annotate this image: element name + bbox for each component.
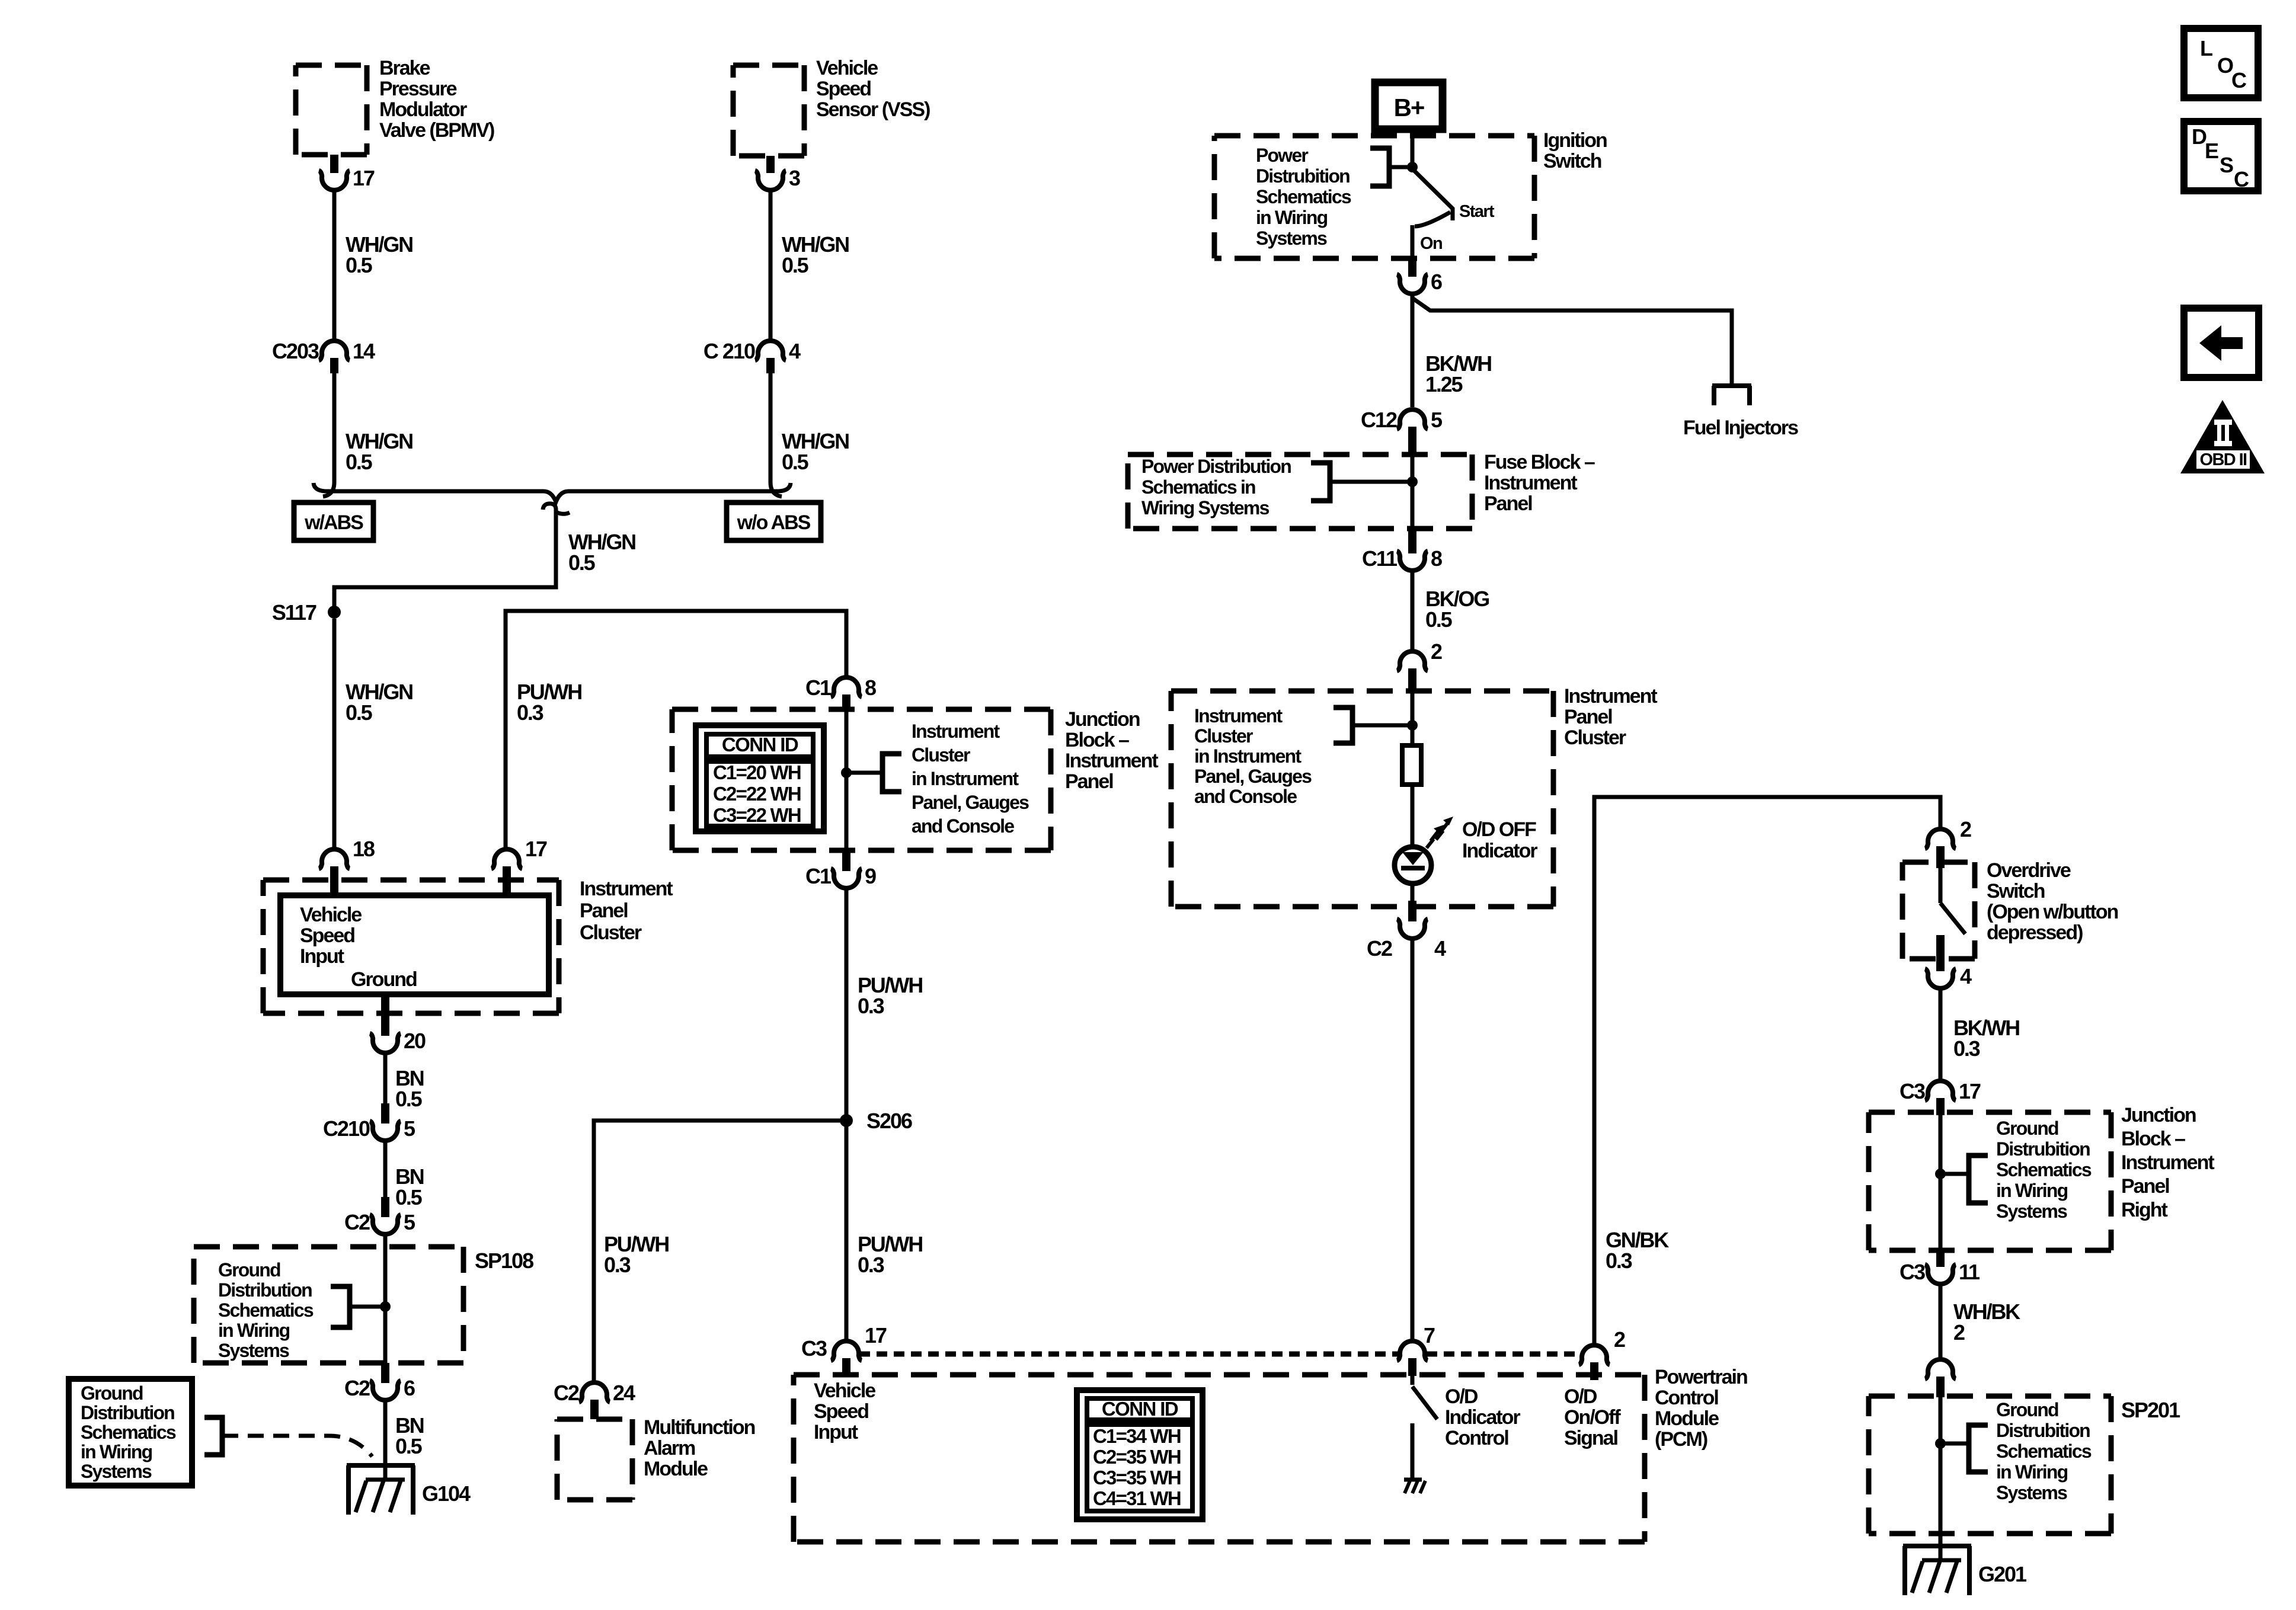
svg-text:Start: Start [1459,202,1495,221]
svg-text:BN0.5: BN0.5 [395,1066,424,1111]
svg-text:17: 17 [525,837,547,861]
svg-text:5: 5 [1431,408,1443,432]
svg-text:w/ABS: w/ABS [304,511,363,534]
wire WH/GN from C203 to ABS brace [323,373,334,497]
reference box: Ground Distribution Schematics in Wiring Systems [69,1379,192,1486]
reference bracket in SP201 [1969,1425,1988,1472]
connector C210 pin 5 [381,1103,389,1124]
component box: Powertrain Control Module (PCM) [794,1375,1645,1542]
svg-text:C1: C1 [805,864,832,888]
svg-text:C2: C2 [344,1376,370,1400]
ignition switch blade to Start [1412,169,1453,220]
svg-text:8: 8 [1431,546,1442,571]
svg-text:18: 18 [353,837,375,861]
splice pack box SP108 [194,1247,463,1363]
svg-text:OBD II: OBD II [2199,450,2247,469]
svg-text:C2: C2 [554,1381,579,1405]
CONN ID table (PCM) [1077,1390,1203,1519]
svg-text:w/o ABS: w/o ABS [737,511,811,534]
wire BN from C2 6 to ground G104 [383,1401,388,1480]
wire resistor to LED [1411,785,1415,848]
component box: Junction Block - Instrument Panel [672,709,1051,850]
connector C3 pin 17 at PCM [842,1358,850,1376]
junction node to bracket [841,767,852,778]
splice node S206 [840,1114,853,1127]
connector at SP201 [1936,1377,1945,1397]
legend box DESC [2184,121,2258,191]
wire BK/WH from pin 4 to C3 17 [1939,990,1943,1080]
wire through junction block [845,711,849,852]
reference bracket in ignition switch box [1370,148,1389,186]
connector C1 pin 8 at junction block [842,694,850,711]
svg-text:BN0.5: BN0.5 [395,1413,424,1458]
wire bracket to node [1330,480,1410,484]
legend box LOC [2184,28,2258,98]
legend symbol OBD II triangle [2180,400,2265,473]
reference bracket in fuse block [1311,463,1330,501]
svg-text:17: 17 [865,1323,887,1347]
svg-text:2: 2 [1614,1327,1625,1352]
svg-text:L: L [2200,36,2212,60]
svg-text:C3: C3 [1900,1079,1925,1103]
LED light arrows [1427,830,1439,848]
connector C3 pin 17 (junction block right) [1936,1098,1945,1115]
splice pack box SP201 [1869,1396,2111,1534]
connector pin 2 at PCM [1590,1362,1598,1380]
component box: Multifunction Alarm Module [557,1419,632,1500]
svg-text:S206: S206 [866,1109,912,1133]
connector C 210 pin 4 [766,358,775,373]
connector pin 18 at instrument panel cluster [330,866,338,895]
wire BN from C210 to C2 [383,1142,388,1198]
component box: Fuse Block - Instrument Panel [1128,454,1472,529]
wire from bracket to splice node [350,1305,383,1309]
svg-text:C3: C3 [1900,1260,1925,1284]
wire WH/GN from BPMV 17 to C203 [332,191,337,340]
wire WH/GN from VSS 3 to C210 [769,191,773,340]
svg-text:E: E [2205,139,2218,163]
svg-text:11: 11 [1959,1260,1980,1284]
svg-text:Fuel Injectors: Fuel Injectors [1683,417,1798,439]
reference bracket in cluster [1334,708,1352,743]
connector C11 pin 8 [1408,529,1416,553]
svg-text:G104: G104 [422,1481,471,1506]
svg-text:S117: S117 [272,600,316,625]
splice node S117 [328,606,341,619]
connector pin 2 at overdrive switch [1936,846,1945,868]
connector C1 pin 9 at junction block [842,851,850,871]
wire BK/WH from connector 6 to C12 [1411,295,1415,407]
svg-text:2: 2 [1960,817,1971,841]
component box: Instrument Panel Cluster (left) [263,880,559,1013]
SP201 node [1935,1438,1946,1449]
wire through fuse block [1411,454,1415,529]
connector pin 4 at overdrive switch [1936,966,1945,971]
wire BK/OG from C11 to cluster pin 2 [1411,572,1415,650]
ground symbol G201 [1903,1546,1971,1595]
splice node in SP108 [380,1301,391,1312]
wire bracket to node [1352,724,1410,728]
wire branch to fuel injectors [1412,298,1732,385]
svg-text:4: 4 [1434,936,1446,961]
svg-text:C2: C2 [344,1210,370,1234]
svg-text:14: 14 [353,339,375,363]
svg-text:20: 20 [404,1029,426,1053]
svg-text:B+: B+ [1394,94,1424,121]
component box: Brake Pressure Modulator Valve (BPMV) [296,65,367,155]
O/D indicator control switch inside PCM [1411,1376,1415,1385]
reference bracket in junction block [882,754,901,792]
fuel injectors connector symbol [1712,386,1751,405]
merge brace joining w/ABS and w/o ABS wires [314,483,791,502]
component box: Instrument Panel Cluster (right) [1171,691,1553,907]
junction right node [1935,1169,1946,1179]
connector C2 pin 5 [381,1197,389,1217]
inner box Vehicle Speed Input / Ground [280,895,549,994]
reference bracket in junction block right [1969,1156,1988,1203]
wire PU/WH from cluster pin 17 up and over to junction C1 8 [506,611,846,848]
wire WH/BK from C3 11 to SP201 [1939,1285,1943,1358]
O/D OFF indicator LED [1395,847,1431,884]
wire through SP108 splice pack [383,1235,388,1364]
wire through SP201 [1939,1396,1943,1546]
svg-text:6: 6 [404,1376,415,1400]
connector C203 pin 14 [330,358,338,373]
PCM connector face dotted line [859,1352,1398,1357]
svg-text:S: S [2220,153,2233,177]
resistor in instrument cluster [1402,745,1421,785]
svg-text:SP201: SP201 [2121,1398,2180,1422]
dashed leader from reference bracket to ground wire [222,1436,372,1457]
connector C2 pin 24 at multifunction alarm module [590,1400,599,1419]
wire squiggle from brace point down [543,504,570,519]
connector C2 pin 6 [381,1363,389,1383]
svg-text:17: 17 [1959,1079,1981,1103]
svg-text:C1=20 WHC2=22 WHC3=22 WH: C1=20 WHC2=22 WHC3=22 WH [713,761,801,826]
svg-text:Ground: Ground [351,968,417,991]
wire from B+ to switch node [1411,129,1415,167]
wire LED to C2 4 [1411,884,1415,903]
svg-text:C11: C11 [1362,546,1398,571]
svg-text:C: C [2231,68,2247,92]
wire from bracket to node [1389,165,1410,169]
svg-text:4: 4 [1960,964,1972,988]
connector C2 pin 4 at cluster [1408,901,1416,921]
reference bracket in SP108 [331,1286,350,1327]
connector C12 pin 5 [1408,427,1416,454]
svg-text:SP108: SP108 [475,1249,533,1273]
wire WH/GN from C210 to ABS brace [770,373,782,497]
option box w/ABS [294,502,373,540]
svg-text:5: 5 [404,1116,415,1141]
ground symbol G104 [347,1465,415,1515]
connector pin 17 at BPMV [330,155,338,173]
wire WH/GN from S117 to cluster pin 18 [332,619,337,848]
connector pin 3 at VSS [766,156,775,173]
svg-text:G201: G201 [1978,1562,2027,1586]
wire through junction block right [1939,1115,1943,1250]
svg-text:C: C [2234,167,2249,191]
svg-text:9: 9 [865,864,876,888]
fuse block node [1407,476,1418,487]
cluster node [1407,720,1418,731]
svg-text:C2: C2 [1367,936,1392,961]
wire from pin 2 through cluster [1411,691,1415,745]
svg-text:C203: C203 [272,339,319,363]
svg-text:7: 7 [1424,1323,1435,1347]
connector pin 17 at instrument panel cluster [503,866,511,895]
svg-text:O/D OFFIndicator: O/D OFFIndicator [1462,818,1537,862]
svg-text:C 210: C 210 [703,339,755,363]
svg-text:IgnitionSwitch: IgnitionSwitch [1543,129,1607,172]
component box: Junction Block - Instrument Panel Right [1869,1112,2111,1250]
svg-text:C3: C3 [801,1336,827,1361]
wire from C2 4 down to PCM pin 7 [1411,940,1415,1340]
svg-text:6: 6 [1431,270,1442,294]
legend box back arrow [2184,308,2259,377]
ignition On position arc [1415,212,1450,226]
wire PU/WH branch from S206 to alarm module C2 24 [594,1121,846,1382]
svg-text:BN0.5: BN0.5 [395,1164,424,1209]
component box: Overdrive Switch [1902,862,1975,959]
connector pin 7 at PCM [1408,1358,1416,1376]
switch node [1407,162,1418,172]
wire into G201 [1939,1546,1943,1560]
component box: Vehicle Speed Sensor (VSS) [733,65,804,156]
svg-text:17: 17 [353,166,375,190]
svg-text:5: 5 [404,1210,415,1234]
svg-text:4: 4 [789,339,801,363]
connector pin 20 at cluster ground output [381,994,389,1036]
mini ground inside PCM [1404,1478,1422,1482]
overdrive switch blade [1939,867,1943,903]
power feed box B+ [1375,82,1443,129]
svg-text:3: 3 [789,166,800,190]
svg-text:2: 2 [1431,639,1442,664]
wire from cluster region over to overdrive switch pin 2 [1594,797,1940,1344]
connector C3 pin 11 [1936,1249,1945,1267]
connector pin 2 at instrument panel cluster [1408,668,1416,693]
CONN ID table (junction block) [696,725,824,831]
svg-text:C12: C12 [1361,408,1397,432]
component box: Ignition Switch [1214,136,1534,258]
svg-text:C210: C210 [323,1116,370,1141]
svg-text:8: 8 [865,676,876,700]
svg-text:On: On [1420,234,1442,253]
reference bracket at left reference box [204,1417,222,1455]
wire BN from pin 20 to C210 [383,1054,388,1105]
overdrive switch lower contact [1936,935,1945,969]
svg-text:24: 24 [613,1381,635,1405]
wire PU/WH from C1 9 down to S206 [845,889,849,1340]
svg-text:C1: C1 [805,676,832,700]
connector pin 6 at ignition switch [1408,258,1416,277]
svg-text:O: O [2217,53,2233,78]
svg-text:CONN ID: CONN ID [722,734,798,756]
wire WH/GN from brace to S117 corner [334,518,556,609]
svg-text:CONN ID: CONN ID [1102,1398,1178,1420]
wire from On position to connector 6 [1411,225,1415,260]
option box w/o ABS [727,502,821,540]
svg-text:C1=34 WHC2=35 WHC3=35 WHC4=31: C1=34 WHC2=35 WHC3=35 WHC4=31 WH [1093,1425,1181,1509]
